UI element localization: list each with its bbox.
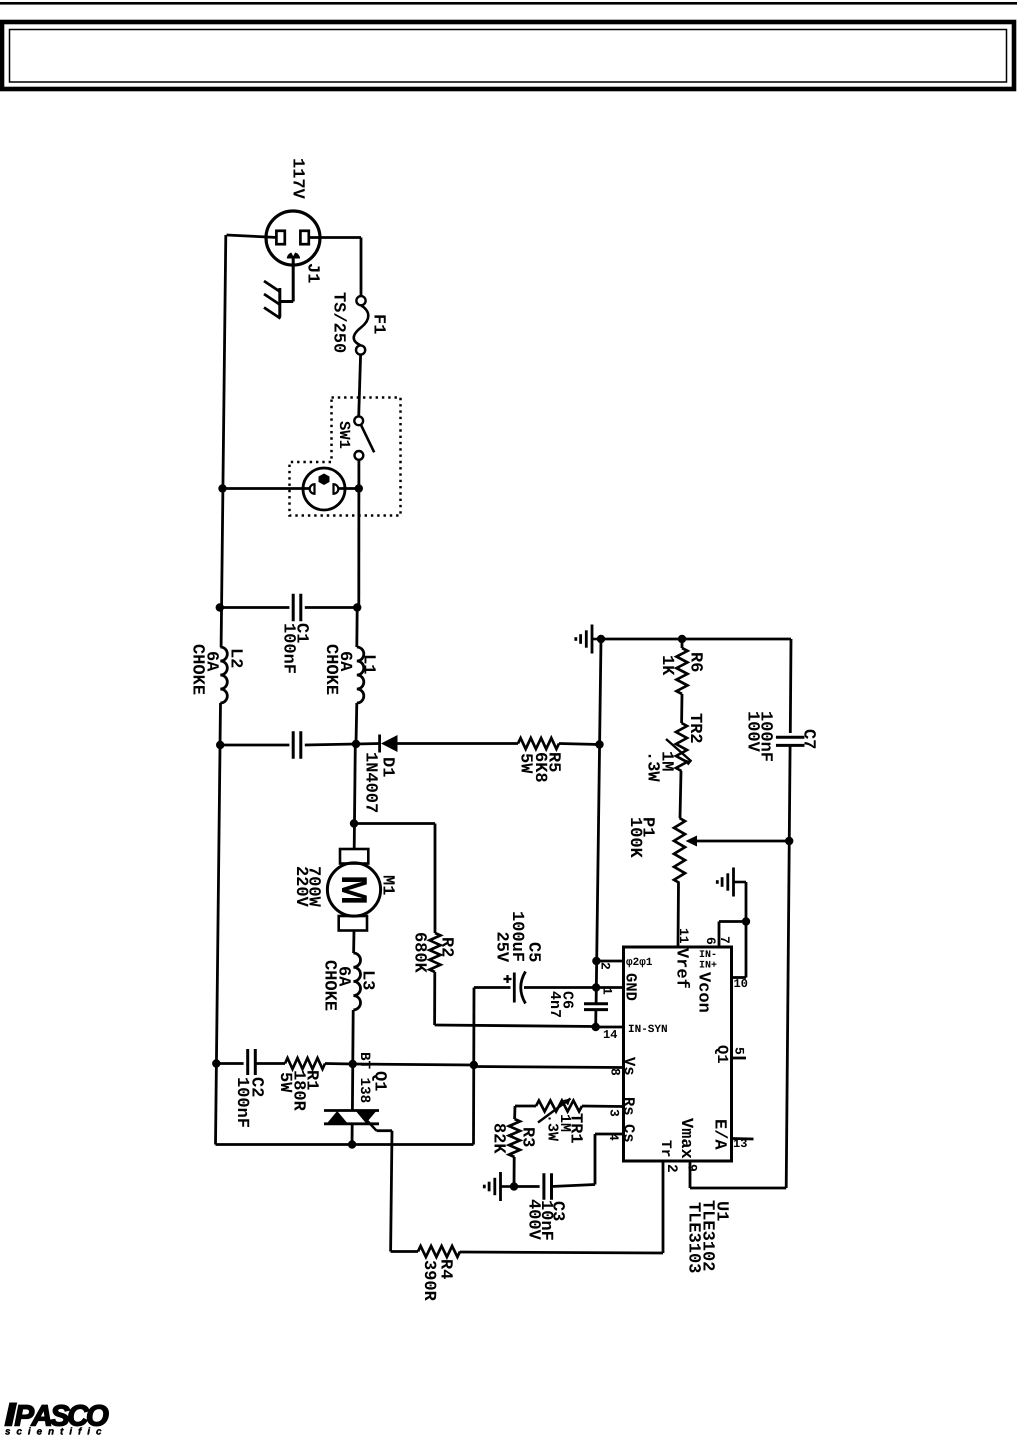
- P1 wiper arrowhead: [686, 836, 698, 847]
- label C3 10nF: [542, 1201, 554, 1240]
- junction triac bottom: [348, 1140, 356, 1148]
- inductor L1 6A CHOKE: [357, 647, 364, 703]
- op-amp U1 TLE3102 box: [624, 947, 732, 1161]
- label R5 5W: [521, 754, 532, 774]
- wire rail L1 to C4: [355, 703, 359, 744]
- junction C4 left: [216, 741, 224, 749]
- label C5 25V: [497, 933, 509, 963]
- capacitor C6: [584, 1004, 608, 1010]
- label R3 82K: [494, 1124, 506, 1154]
- wire R4 to gate: [391, 1250, 418, 1253]
- label R3: [523, 1128, 535, 1146]
- wire left rail to socket: [223, 487, 311, 490]
- label R5 6K8: [536, 753, 548, 782]
- label L1: [365, 656, 376, 674]
- dashed enclosure switch+socket: [290, 398, 401, 516]
- plug J1 body: [266, 211, 320, 265]
- label SYN: [629, 1025, 667, 1032]
- PASCO scientific logo: [4, 1403, 108, 1435]
- label R1 5W: [281, 1073, 292, 1093]
- wire R6 stub: [681, 639, 684, 648]
- junction Vs node: [470, 1061, 478, 1069]
- wire right rail upper: [789, 639, 793, 733]
- fuse F1: [354, 296, 369, 355]
- potentiometer P1: [674, 818, 685, 883]
- label R6 1K: [663, 656, 674, 675]
- wire fuse to switch: [359, 355, 361, 417]
- label M1: [384, 876, 395, 895]
- ground GND3: [484, 1172, 514, 1201]
- wire rail fuse-top: [360, 238, 363, 297]
- wire gnd down to Vcon: [745, 882, 748, 978]
- wire R3 to node: [513, 1157, 516, 1187]
- label L3 CHOKE: [325, 961, 337, 1011]
- label E/A: [715, 1120, 727, 1149]
- wire plug-right to right rail: [308, 236, 362, 239]
- label C3: [553, 1202, 565, 1221]
- wire C5 left: [474, 986, 511, 989]
- junction Vcon/gnd node: [742, 917, 750, 925]
- junction snubber left: [212, 1059, 220, 1067]
- label J1: [308, 264, 319, 283]
- wire C4 right: [305, 744, 356, 745]
- wire Vs stub: [474, 1067, 624, 1068]
- label TR1 1M: [561, 1115, 571, 1131]
- label Vcon: [699, 972, 710, 1012]
- pin number 2: [602, 963, 611, 969]
- label C2 100nF: [238, 1078, 250, 1127]
- wire C2 to R1: [255, 1062, 285, 1065]
- label R6: [691, 653, 703, 671]
- label TR1 .3W: [548, 1117, 558, 1141]
- wire pin1 GND stub: [596, 986, 623, 989]
- plug J1 left blade pin: [276, 231, 284, 244]
- wire left rail upper: [221, 235, 226, 647]
- label R1: [308, 1071, 319, 1090]
- junction pin2: [592, 957, 600, 965]
- junction C1 left: [216, 603, 224, 611]
- wire rail to motor: [354, 744, 355, 849]
- label L1 6A: [341, 652, 353, 671]
- trimmer TR1: [536, 1099, 582, 1123]
- chassis ground at plug: [264, 281, 281, 319]
- wire C4 left: [220, 744, 289, 747]
- label R4 390R: [425, 1261, 437, 1301]
- label Rs: [624, 1098, 634, 1115]
- pin number 8: [611, 1069, 620, 1075]
- pin number 3: [610, 1110, 619, 1117]
- wire control rail: [596, 639, 601, 1004]
- header box outer border: [2, 22, 1014, 89]
- label C5 100uF: [513, 912, 525, 961]
- label R1 180R: [294, 1071, 306, 1111]
- pin number 1: [604, 988, 613, 994]
- label L2: [232, 650, 243, 668]
- triac gate wire: [368, 1121, 393, 1252]
- C5 plus sign: [504, 975, 512, 983]
- label U1 TLE3103: [689, 1203, 701, 1273]
- pin number 9: [688, 1165, 697, 1171]
- wire E/A stub: [732, 1137, 754, 1140]
- label Q1: [372, 1072, 387, 1091]
- label L3: [363, 972, 375, 990]
- wire R1 to rail: [325, 1062, 353, 1065]
- plug J1 right blade pin: [300, 231, 308, 244]
- top rule line: [0, 2, 1017, 5]
- capacitor C2: [248, 1049, 256, 1075]
- inductor L3 6A CHOKE: [353, 953, 360, 1010]
- label TR2: [691, 714, 702, 743]
- label SW1: [340, 421, 351, 448]
- resistor R3 82K: [509, 1119, 520, 1157]
- wire node to C3: [514, 1185, 540, 1188]
- wire pin5 stub: [732, 1057, 747, 1060]
- pin number 11: [680, 929, 689, 943]
- pin number 4: [610, 1133, 619, 1140]
- junction snubber/rail: [349, 1060, 357, 1068]
- label C6: [563, 992, 573, 1009]
- resistor R4 390R: [418, 1246, 460, 1257]
- label Q1 pin5: [715, 1046, 728, 1063]
- wire TR2 to P1: [680, 771, 681, 818]
- resistor R1 180R: [285, 1058, 325, 1069]
- wire triac to bottom: [351, 1124, 354, 1145]
- wire bottom rail: [216, 1143, 474, 1146]
- label P1 100K: [631, 818, 643, 858]
- label Vs: [625, 1057, 635, 1075]
- wire C6 to SYN: [594, 1010, 597, 1027]
- capacitor C5 100uF: [514, 972, 525, 1004]
- capacitor C3: [544, 1173, 552, 1200]
- wire Tr2 pin stub: [662, 1161, 665, 1253]
- wire TR1 left: [515, 1106, 536, 1119]
- label U1: [717, 1202, 728, 1221]
- inductor L2 6A CHOKE: [220, 647, 227, 703]
- pin number 13: [734, 1139, 747, 1147]
- label Cs: [624, 1125, 635, 1142]
- label Vref: [677, 948, 690, 988]
- socket body: [303, 468, 345, 510]
- switch SW1: [354, 416, 374, 459]
- label TR1: [572, 1114, 583, 1143]
- wire C1 right: [305, 606, 357, 609]
- motor M1 body: [327, 863, 380, 916]
- label TR2 .3W: [648, 755, 660, 782]
- wire Tr2 to R4: [460, 1252, 663, 1253]
- label R4: [442, 1260, 453, 1279]
- label TS/250: [334, 293, 346, 353]
- label Q1 BT138: [361, 1053, 371, 1102]
- wire Cs stub: [595, 1134, 624, 1185]
- socket left pin: [310, 484, 315, 494]
- wire node to pins 6-7: [719, 922, 746, 948]
- socket right pin: [334, 484, 339, 494]
- junction pin1: [592, 983, 600, 991]
- socket top pin: [319, 474, 330, 486]
- label R5: [549, 753, 560, 771]
- wire C3 to Cs: [552, 1185, 595, 1187]
- wire top node to right rail: [601, 638, 791, 641]
- label IN+: [700, 961, 717, 968]
- label C7 100nF: [761, 712, 773, 761]
- label C7: [804, 730, 816, 749]
- label C6 4n7: [551, 992, 561, 1017]
- label pin phi2/phi1: [626, 958, 652, 968]
- junction R3/C3/gnd: [510, 1182, 518, 1190]
- label 117V: [294, 159, 305, 199]
- wire plug-left to left rail: [227, 235, 278, 238]
- resistor R5: [518, 738, 559, 749]
- pin number 10: [734, 979, 747, 987]
- wire left rail lower: [216, 703, 221, 1145]
- label C1 value: [284, 624, 296, 673]
- pin number 5: [735, 1048, 744, 1054]
- junction wiper/right rail: [785, 837, 793, 845]
- wire motor to L3: [352, 931, 355, 954]
- pin number 14: [604, 1030, 617, 1038]
- wire C5 right: [524, 986, 596, 989]
- label L2 6A: [207, 652, 219, 671]
- motor M1 bottom terminal: [339, 916, 367, 931]
- label L1 CHOKE: [327, 645, 339, 695]
- wire snubber left: [216, 1062, 243, 1065]
- label C1: [297, 624, 309, 643]
- wire plug ground pin down: [280, 259, 293, 302]
- label F1: [375, 315, 386, 333]
- resistor R6: [677, 648, 688, 694]
- label C2: [252, 1078, 264, 1097]
- wire socket to rail: [338, 487, 359, 490]
- capacitor C7: [776, 737, 805, 745]
- label D1 value: [366, 753, 378, 812]
- pin number 7: [721, 937, 730, 943]
- diode D1 1N4007: [356, 735, 518, 753]
- wire C1 left: [220, 606, 290, 609]
- junction R2 top: [350, 819, 358, 827]
- wire R6 to TR2: [680, 694, 683, 723]
- resistor R2 680K: [354, 824, 596, 1027]
- label Vmax: [682, 1118, 693, 1158]
- junction R6 top: [678, 635, 686, 643]
- label IN-: [700, 950, 716, 957]
- junction C4 right/D1: [352, 740, 360, 748]
- label L2 CHOKE: [193, 645, 205, 695]
- wire C5-node down: [472, 988, 475, 1145]
- wire switch to socket node: [357, 460, 360, 608]
- label C7 100V: [748, 712, 760, 752]
- label P1: [644, 818, 655, 837]
- label M1 700W: [309, 867, 321, 907]
- junction left-rail/socket wire: [218, 484, 226, 492]
- junction top-left node: [597, 635, 605, 643]
- ground GND Vcon: [717, 868, 746, 897]
- wire P1 to Vref pin11: [677, 883, 680, 947]
- capacitor C4: [293, 731, 301, 759]
- junction socket-right: [355, 484, 363, 492]
- wire rail C1 to L1: [355, 608, 358, 648]
- wire R5 to control rail: [559, 744, 600, 745]
- wire rail to Vs-node: [353, 1064, 474, 1065]
- capacitor C1: [293, 594, 301, 622]
- trimmer TR2: [666, 723, 692, 771]
- label TR2 1M: [663, 752, 674, 770]
- label GND: [626, 974, 637, 1001]
- ground GND top: [576, 625, 601, 654]
- wire SYN stub: [596, 1026, 624, 1029]
- triac Q1 BT138: [324, 1111, 379, 1124]
- label D1: [384, 758, 395, 777]
- wire Vcon stub: [732, 976, 747, 979]
- plug J1 ground pin: [287, 250, 300, 258]
- wire pin2 stub: [596, 960, 623, 963]
- label M1 220V: [297, 867, 309, 907]
- wire L3 to triac: [351, 1010, 355, 1111]
- label R2 680K: [415, 933, 427, 973]
- label C3 400V: [529, 1200, 541, 1240]
- label R2: [443, 938, 454, 956]
- label Tr2 pin: [662, 1140, 678, 1171]
- pin number 6: [707, 938, 716, 944]
- wire Vmax pin stub: [690, 1161, 786, 1188]
- label U1 TLE3102: [703, 1201, 715, 1271]
- wire P1 wiper: [694, 840, 789, 843]
- label C5: [529, 943, 541, 962]
- wire right rail lower: [786, 746, 790, 1189]
- junction SYN: [592, 1023, 600, 1031]
- wire Rs stub: [582, 1105, 624, 1108]
- junction R5/rail: [595, 740, 603, 748]
- motor M1 top terminal: [340, 849, 368, 864]
- label L3 6A: [339, 967, 351, 986]
- header box inner border: [10, 30, 1007, 83]
- junction C1 right: [353, 603, 361, 611]
